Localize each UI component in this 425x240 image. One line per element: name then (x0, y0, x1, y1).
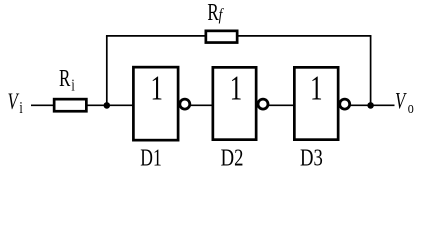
wire input Vi to Ri (31, 104, 54, 106)
inverter D1 output bubble (180, 99, 190, 109)
svg-text:R: R (207, 0, 218, 26)
svg-text:D2: D2 (221, 144, 244, 171)
node Vi input label (8, 89, 23, 117)
svg-text:V: V (395, 89, 407, 114)
resistor Rf (206, 31, 237, 43)
inverter D2 box (213, 67, 256, 139)
node B junction dot (367, 102, 374, 109)
svg-text:i: i (71, 77, 74, 95)
svg-text:D3: D3 (300, 144, 323, 171)
resistor Ri (54, 99, 86, 111)
inverter D1 box (133, 67, 178, 140)
node Vo output label (395, 89, 414, 118)
svg-text:D1: D1 (140, 144, 161, 172)
wire D2 to D3 (269, 104, 295, 106)
inverter D3 box (294, 67, 338, 139)
wire feedback top left segment (106, 35, 206, 37)
node A junction dot (104, 102, 111, 109)
inverter D2 output bubble (258, 99, 268, 109)
inverter D3 output bubble (340, 99, 350, 109)
svg-text:o: o (408, 99, 414, 117)
svg-text:V: V (8, 89, 20, 114)
svg-text:1: 1 (150, 68, 162, 107)
svg-text:R: R (59, 64, 70, 92)
label Ri (59, 64, 75, 95)
svg-text:f: f (219, 5, 224, 24)
svg-text:1: 1 (310, 68, 322, 107)
wire feedback top right segment (237, 35, 371, 37)
wire D3 to Vo output (350, 104, 394, 106)
label Rf (207, 0, 223, 26)
wire feedback right vertical (370, 36, 372, 105)
svg-text:1: 1 (230, 68, 242, 107)
svg-text:i: i (19, 99, 22, 117)
wire D1 to D2 (191, 104, 214, 106)
wire feedback left vertical (106, 36, 108, 105)
wire Ri to D1 input (87, 104, 134, 106)
